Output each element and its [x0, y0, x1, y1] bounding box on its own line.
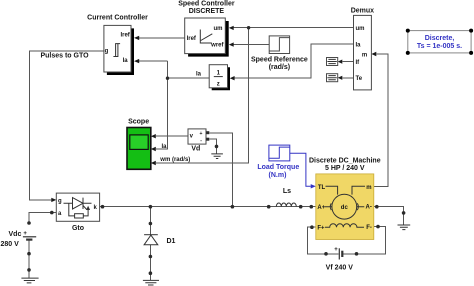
- svg-text:Te: Te: [356, 76, 363, 82]
- wire Ia junction vertical: [156, 61, 168, 149]
- svg-text:m: m: [366, 185, 371, 191]
- controller icon: [200, 30, 212, 44]
- svg-text:dc: dc: [341, 205, 349, 211]
- wire Pulses to GTO: [30, 51, 104, 200]
- wire Te to terminator: [342, 77, 353, 79]
- svg-text:Ia: Ia: [196, 72, 202, 78]
- relay icon: [113, 44, 120, 57]
- wire Ia to Current Controller: [139, 60, 167, 62]
- wire um (Demux to Speed Controller): [234, 27, 354, 29]
- node Ls right port: [299, 205, 303, 209]
- wire Vdc to ground: [28, 240, 30, 278]
- svg-text:+: +: [23, 231, 27, 237]
- ground for D1: [143, 280, 159, 285]
- node Vd+ junction: [231, 205, 235, 209]
- svg-text:Speed Controller: Speed Controller: [178, 0, 235, 7]
- svg-text:Iref: Iref: [187, 36, 197, 42]
- wire wm branch (um junction down to Scope): [156, 28, 249, 163]
- block Speed Reference: [251, 36, 308, 71]
- wire Iref (Speed Controller to Current Controller): [139, 37, 185, 39]
- svg-text:Vf 240 V: Vf 240 V: [326, 265, 354, 272]
- ground for Vd: [211, 154, 223, 159]
- node Gto a port: [50, 211, 54, 215]
- terminator If: [327, 58, 338, 66]
- node F- port: [376, 225, 380, 229]
- svg-text:Ia: Ia: [356, 43, 362, 49]
- wire Gto a input: [29, 213, 56, 223]
- svg-text:wm (rad/s): wm (rad/s): [159, 157, 190, 163]
- svg-text:Ts = 1e-005 s.: Ts = 1e-005 s.: [417, 43, 462, 50]
- svg-text:(rad/s): (rad/s): [269, 64, 290, 71]
- svg-text:wref: wref: [210, 43, 224, 49]
- wire F+ to Vf: [308, 227, 339, 254]
- node wm branch junction: [247, 26, 250, 29]
- ground for Vdc: [21, 278, 38, 283]
- ground for A-: [398, 225, 411, 230]
- svg-text:g: g: [105, 49, 109, 55]
- wire Ia Demux to unit delay: [235, 44, 354, 78]
- source Vf: [326, 247, 354, 272]
- wire D1 branch: [149, 207, 151, 235]
- block Discrete DC Machine: [309, 157, 381, 239]
- machine icon: [325, 186, 366, 227]
- svg-text:F+: F+: [317, 226, 325, 232]
- block Demux: [351, 8, 374, 90]
- block Vd voltage measurement: [188, 129, 209, 152]
- terminator Te: [327, 74, 338, 82]
- wire Vd plus to main node: [209, 133, 232, 207]
- wire wref (Speed Reference to Speed Controller): [234, 44, 270, 46]
- node Vdc ground port: [27, 268, 31, 272]
- svg-text:D1: D1: [167, 238, 176, 245]
- svg-text:g: g: [58, 198, 62, 204]
- svg-text:Discrete DC_Machine: Discrete DC_Machine: [309, 157, 381, 164]
- wire Vd output to Scope: [156, 135, 188, 137]
- node A+ port: [310, 205, 314, 209]
- block Speed Controller: [178, 0, 235, 56]
- annotation Discrete Ts: [406, 29, 473, 55]
- inductor Ls: [276, 188, 296, 206]
- svg-text:Vdc: Vdc: [9, 231, 22, 238]
- block Gto: [56, 193, 99, 232]
- svg-text:z: z: [217, 82, 220, 88]
- node A- ground port: [402, 211, 406, 215]
- svg-text:um: um: [356, 26, 365, 32]
- svg-text:Gto: Gto: [72, 225, 84, 232]
- source Vdc: [1, 231, 37, 248]
- node D1 junction: [149, 205, 153, 209]
- svg-text:Ia: Ia: [123, 58, 129, 64]
- blue wire Load Torque to TL: [290, 153, 311, 186]
- svg-text:DISCRETE: DISCRETE: [189, 8, 225, 15]
- node Ls left port: [267, 205, 271, 209]
- node D1 ground port: [149, 271, 153, 275]
- wire If to terminator: [342, 61, 353, 63]
- node Vd ground port: [215, 145, 219, 149]
- wire D1 anode to ground: [149, 245, 151, 280]
- node Vf - port: [355, 252, 359, 256]
- wire A- to ground: [374, 207, 404, 225]
- node Gto k port: [101, 205, 105, 209]
- svg-text:F-: F-: [366, 225, 372, 231]
- node Vf + port: [324, 252, 328, 256]
- svg-text:5 HP / 240 V: 5 HP / 240 V: [325, 165, 365, 172]
- svg-text:Discrete,: Discrete,: [425, 35, 455, 42]
- node F+ port: [310, 225, 314, 229]
- svg-text:Ls: Ls: [283, 188, 291, 195]
- block Load Torque: [257, 145, 299, 179]
- wire Vd minus to ground: [209, 139, 216, 154]
- svg-text:Speed Reference: Speed Reference: [251, 56, 308, 63]
- blue arrowhead TL: [311, 184, 316, 188]
- block Scope: [127, 118, 151, 169]
- node D1 anode port: [149, 255, 153, 259]
- block unit delay 1/z: [196, 65, 230, 91]
- svg-text:280 V: 280 V: [1, 241, 20, 248]
- input arrowheads: [51, 26, 376, 202]
- wire m (machine to Demux): [374, 54, 388, 186]
- svg-text:Demux: Demux: [351, 8, 374, 15]
- svg-text:Load Torque: Load Torque: [257, 164, 299, 171]
- diode D1: [144, 235, 175, 245]
- svg-text:um: um: [214, 26, 223, 32]
- node Ia junction: [166, 77, 169, 80]
- wire unit delay output to junction: [168, 77, 210, 79]
- node Vdc + port: [27, 221, 31, 225]
- node D1 cathode port: [149, 222, 153, 226]
- node A- port: [375, 205, 379, 209]
- svg-text:Ia: Ia: [162, 144, 168, 150]
- block Current Controller: [87, 15, 148, 76]
- node Vdc - port: [27, 252, 31, 256]
- svg-text:+: +: [334, 247, 338, 253]
- svg-text:A+: A+: [317, 205, 325, 211]
- svg-text:A-: A-: [366, 204, 372, 210]
- svg-text:TL: TL: [318, 185, 326, 191]
- svg-text:Pulses to GTO: Pulses to GTO: [40, 53, 89, 60]
- gto icon: [64, 198, 92, 218]
- svg-text:(N.m): (N.m): [269, 172, 287, 179]
- wire main armature line: [100, 206, 316, 208]
- wire Vf to F-: [342, 227, 385, 254]
- svg-text:+: +: [200, 131, 203, 137]
- svg-text:Vd: Vd: [191, 145, 200, 152]
- svg-text:Current Controller: Current Controller: [87, 15, 148, 22]
- svg-text:m: m: [362, 53, 367, 59]
- svg-text:Scope: Scope: [128, 118, 149, 125]
- svg-text:Iref: Iref: [120, 32, 130, 38]
